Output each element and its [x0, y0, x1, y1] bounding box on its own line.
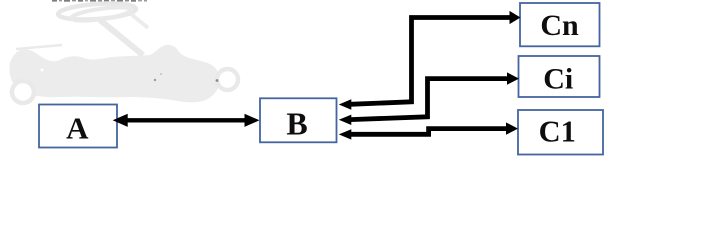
wire B-Ci elbow double arrow [339, 72, 519, 125]
main blob body [9, 45, 220, 102]
tiny handwriting dashes cut off at top edge [52, 0, 147, 2]
box Ci [519, 56, 600, 97]
diagonal stroke [100, 20, 143, 55]
specks [154, 79, 156, 81]
svg-text:B: B [286, 106, 307, 142]
bottom-left ring loop [12, 81, 34, 103]
thin stroke upper-left of blob [16, 45, 62, 49]
watermark doodle (light gray sketch, decorative) [9, 0, 238, 103]
svg-text:C1: C1 [539, 115, 576, 149]
box A [39, 105, 117, 148]
wire B-Cn elbow double arrow [339, 11, 521, 110]
svg-text:Ci: Ci [543, 62, 573, 95]
right ring loop [217, 69, 238, 90]
svg-text:Cn: Cn [540, 9, 579, 42]
ellipse loop doodle [58, 1, 137, 21]
box B [260, 98, 337, 142]
box C1 [518, 110, 603, 155]
box Cn [520, 3, 600, 46]
wire B-C1 jogged double arrow [339, 122, 518, 139]
wire A-B double arrow [113, 114, 260, 127]
svg-text:A: A [66, 111, 89, 146]
